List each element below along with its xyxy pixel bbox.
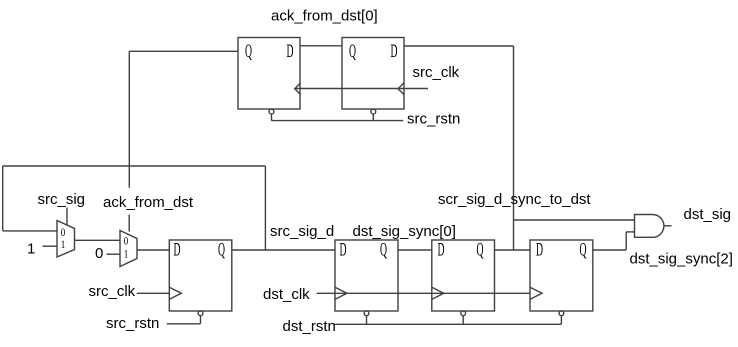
clock pin triangle of U4 bbox=[335, 287, 347, 299]
svg-text:Q: Q bbox=[218, 241, 225, 261]
svg-text:D: D bbox=[287, 42, 294, 62]
reset bubble of U5 bbox=[461, 311, 466, 316]
reset bubble of U3 bbox=[198, 311, 203, 316]
svg-text:dst_sig_sync[2]: dst_sig_sync[2] bbox=[630, 251, 733, 268]
clock pin triangle of U5 bbox=[432, 287, 444, 299]
reset bubble of U4 bbox=[364, 311, 369, 316]
wire node ack_from_dst: U1.Q left then down to mux M2 select bbox=[129, 50, 238, 52]
flip-flop U6 (dst sync stage 2) bbox=[530, 240, 593, 311]
wire dst_rstn to U4/U5/U6 reset bubbles bbox=[366, 316, 368, 325]
wire G1 output dst_sig bbox=[664, 225, 672, 227]
svg-text:Q: Q bbox=[380, 241, 387, 261]
wire src_rstn to U3 reset bbox=[200, 316, 202, 324]
svg-text:D: D bbox=[340, 241, 347, 261]
flip-flop U5 (dst sync stage 1) bbox=[432, 240, 495, 311]
clock pin triangle of U6 bbox=[530, 287, 542, 299]
wire scr_sig_d_sync_to_dst to G1 input A bbox=[514, 219, 635, 221]
svg-text:D: D bbox=[391, 42, 398, 62]
svg-text:src_rstn: src_rstn bbox=[407, 111, 460, 128]
svg-text:dst_clk: dst_clk bbox=[263, 286, 310, 303]
svg-text:1: 1 bbox=[61, 239, 66, 251]
svg-text:D: D bbox=[174, 241, 181, 261]
wire U5.Q to U6.D (node scr_sig_d_sync_to_dst) bbox=[495, 249, 531, 251]
svg-text:dst_rstn: dst_rstn bbox=[283, 318, 336, 335]
svg-text:Q: Q bbox=[580, 241, 587, 261]
wire U2.Q to U1.D bbox=[300, 45, 342, 47]
svg-text:1: 1 bbox=[27, 241, 35, 258]
clock pin triangle of U1 bbox=[295, 83, 301, 95]
reset bubble of U1 bbox=[269, 109, 274, 114]
wire node src_sig_d: U3.Q to U4.D bbox=[232, 249, 335, 251]
flip-flop U3 (src domain capture) bbox=[169, 240, 232, 311]
flip-flop U2 (ack sync stage 1, top-right) bbox=[342, 38, 404, 110]
svg-text:scr_sig_d_sync_to_dst: scr_sig_d_sync_to_dst bbox=[438, 191, 591, 208]
svg-text:src_sig_d: src_sig_d bbox=[270, 223, 334, 240]
wire src_clk to U1/U2 clock pins bbox=[295, 88, 428, 90]
svg-text:ack_from_dst: ack_from_dst bbox=[103, 194, 194, 211]
svg-text:0: 0 bbox=[124, 235, 129, 247]
wire src_rstn to U1/U2 reset bubbles bbox=[271, 114, 273, 121]
reset bubble of U2 bbox=[371, 109, 376, 114]
svg-text:dst_sig_sync[0]: dst_sig_sync[0] bbox=[353, 223, 456, 240]
clock pin triangle of U2 bbox=[398, 83, 404, 95]
reset bubble of U6 bbox=[559, 311, 564, 316]
svg-text:Q: Q bbox=[245, 42, 252, 62]
svg-text:D: D bbox=[438, 241, 445, 261]
wire constant 0 to M2 input 1 bbox=[107, 253, 121, 255]
svg-text:D: D bbox=[536, 241, 543, 261]
wire src_clk to U3 clock bbox=[137, 292, 170, 294]
wire dst_clk to U4/U5/U6 clock pins bbox=[317, 292, 530, 294]
svg-text:src_clk: src_clk bbox=[89, 283, 136, 300]
flip-flop U4 (dst sync stage 0) bbox=[335, 240, 398, 311]
svg-text:dst_sig: dst_sig bbox=[684, 206, 732, 223]
mux M1 bbox=[57, 221, 75, 258]
svg-text:src_sig: src_sig bbox=[38, 191, 86, 208]
AND gate G1 bbox=[635, 215, 664, 238]
wire select src_sig to M1 bbox=[66, 208, 68, 226]
svg-text:1: 1 bbox=[124, 248, 129, 260]
wire U6.Q to G1 input B (node dst_sig_sync[2]) bbox=[593, 249, 626, 251]
wire M2 output to U3.D bbox=[137, 249, 169, 251]
wire constant 1 to M1 input 1 bbox=[43, 245, 58, 247]
svg-text:0: 0 bbox=[61, 227, 66, 239]
svg-text:ack_from_dst[0]: ack_from_dst[0] bbox=[271, 8, 378, 25]
wire M1 output to M2 input 0 bbox=[75, 239, 121, 241]
svg-text:Q: Q bbox=[349, 42, 356, 62]
flip-flop U1 (ack sync stage 2, top-left) bbox=[238, 38, 300, 110]
svg-text:src_clk: src_clk bbox=[413, 64, 460, 81]
svg-text:0: 0 bbox=[95, 245, 103, 262]
mux M2 bbox=[120, 231, 137, 267]
wire feedback src_sig_d to mux M1 input 0 bbox=[264, 166, 266, 250]
svg-text:Q: Q bbox=[477, 241, 484, 261]
wire U4.Q to U5.D bbox=[398, 249, 432, 251]
clock pin triangle of U3 bbox=[169, 287, 181, 299]
svg-text:src_rstn: src_rstn bbox=[106, 315, 159, 332]
wire node dst_sig_sync[1]: U2.D right then down to dst row bbox=[404, 45, 514, 47]
